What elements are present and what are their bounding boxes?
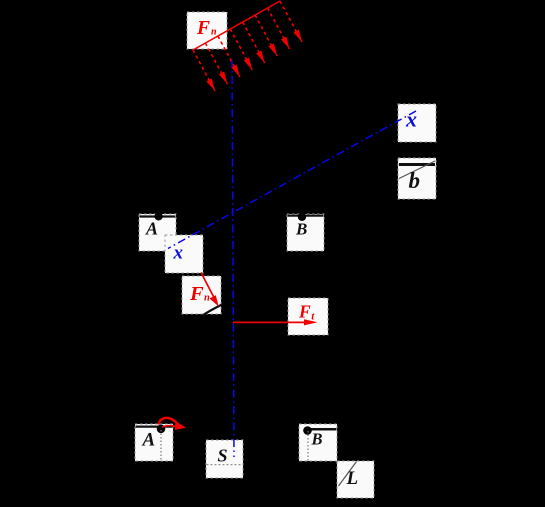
label box Fn (top, distributed load label)	[187, 12, 227, 49]
label Fn (component)	[189, 283, 210, 305]
svg-text:B: B	[295, 219, 307, 238]
dotted support axis under node B	[307, 431, 309, 461]
svg-text:x: x	[405, 107, 417, 132]
beam edge line over box b	[399, 163, 435, 166]
label box L (length label)	[337, 461, 374, 498]
label box B (support B, lower sketch)	[299, 424, 337, 461]
load arrow 2	[205, 43, 227, 84]
svg-text:n: n	[204, 293, 210, 304]
pin node B	[298, 213, 306, 221]
pin node B (lower)	[303, 426, 312, 435]
distributed load arrow group Fn	[193, 1, 302, 91]
label box B (support B, upper sketch)	[287, 213, 324, 251]
label box x (top right, coordinate label)	[398, 104, 436, 142]
svg-text:F: F	[298, 302, 311, 322]
beam line over lower box A	[136, 426, 173, 428]
load arrow 7	[268, 8, 290, 49]
angle arc	[203, 305, 223, 316]
pin node A (lower)	[157, 425, 166, 434]
beam line over lower box B	[305, 428, 337, 431]
vertical axis centerline (blue dash-dot)	[232, 60, 234, 458]
beam axis diagonal over box b	[399, 161, 435, 179]
label box Ft (tangential force component label)	[288, 298, 328, 335]
label Ft	[298, 302, 315, 323]
beam line over box B	[288, 215, 324, 217]
label box A (support A, upper sketch)	[139, 212, 176, 251]
load arrow 4	[230, 29, 252, 70]
svg-text:A: A	[145, 219, 158, 239]
svg-text:x: x	[173, 243, 184, 264]
label box A (support A, lower sketch)	[135, 424, 173, 461]
svg-text:b: b	[409, 168, 421, 193]
beam line over box A	[140, 215, 176, 217]
inclined axis centerline (blue dash-dot)	[168, 111, 416, 249]
load arrow 3	[218, 36, 240, 77]
svg-text:S: S	[218, 446, 228, 466]
moment arrow at lower support A	[159, 418, 187, 430]
svg-text:A: A	[142, 430, 156, 451]
label box S (section label)	[206, 440, 243, 478]
svg-text:B: B	[311, 430, 323, 449]
svg-text:n: n	[211, 27, 217, 38]
dotted support axis under node A	[160, 430, 162, 461]
load arrow 6	[255, 15, 277, 56]
label box b (dimension label)	[398, 158, 436, 199]
load arrow 8	[280, 1, 302, 42]
load arrow 1	[193, 50, 215, 91]
svg-text:F: F	[196, 18, 210, 39]
dotted section line over box S	[207, 464, 243, 466]
svg-text:L: L	[346, 468, 359, 489]
svg-text:F: F	[189, 283, 204, 305]
label box x (second coordinate label on axis)	[165, 235, 203, 273]
pin node A	[154, 212, 162, 220]
label box Fn (normal force component label)	[182, 276, 222, 316]
distributed load reference line	[193, 1, 280, 50]
load arrow 5	[243, 22, 265, 63]
dimension diagonal over box L	[339, 462, 357, 487]
force arrow Ft (tangential component)	[233, 319, 318, 325]
force arrow Fn (normal component)	[201, 273, 219, 307]
label Fn (top)	[196, 18, 217, 39]
